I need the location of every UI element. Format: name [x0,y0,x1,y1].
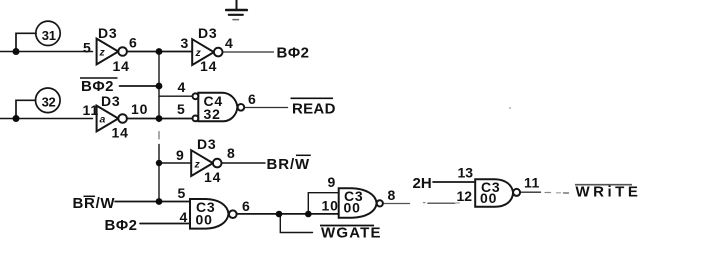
svg-text:13: 13 [458,165,474,181]
svg-text:11: 11 [524,175,540,191]
svg-text:9: 9 [176,147,185,163]
svg-text:8: 8 [227,145,236,161]
svg-text:3: 3 [181,35,190,51]
svg-text:D3: D3 [98,25,118,41]
svg-text:14: 14 [113,58,130,74]
svg-text:31: 31 [42,28,56,43]
svg-text:BΦ2: BΦ2 [277,45,310,62]
svg-text:4: 4 [180,209,189,225]
svg-text:2H: 2H [413,175,432,192]
svg-text:5: 5 [83,40,92,56]
svg-text:6: 6 [248,91,257,107]
svg-text:5: 5 [177,101,186,117]
svg-text:10: 10 [131,101,148,117]
svg-text:BR/W: BR/W [73,195,116,212]
svg-text:a: a [100,114,106,126]
svg-text:12: 12 [457,188,473,204]
svg-text:14: 14 [112,125,129,141]
svg-text:BR/W: BR/W [267,156,311,173]
svg-text:5: 5 [178,185,187,201]
svg-text:9: 9 [328,174,337,190]
svg-text:D3: D3 [197,136,217,152]
svg-text:14: 14 [204,169,221,185]
svg-text:READ: READ [292,100,336,117]
svg-text:WGATE: WGATE [321,225,382,242]
svg-text:00: 00 [196,211,213,227]
svg-text:z: z [99,47,106,59]
svg-text:00: 00 [344,200,361,216]
svg-text:D3: D3 [198,25,218,41]
svg-text:6: 6 [242,198,251,214]
svg-text:32: 32 [204,106,221,122]
svg-text:BΦ2: BΦ2 [105,217,138,234]
svg-text:D3: D3 [101,93,121,109]
svg-text:4: 4 [225,35,234,51]
svg-text:WRiTE: WRiTE [576,184,642,201]
svg-text:14: 14 [200,58,217,74]
svg-text:6: 6 [129,35,138,51]
svg-text:z: z [194,159,201,171]
svg-text:4: 4 [178,79,187,95]
svg-text:00: 00 [480,190,497,206]
svg-text:8: 8 [388,187,397,203]
svg-text:32: 32 [42,95,56,110]
svg-text:11: 11 [83,102,99,118]
svg-text:10: 10 [322,197,339,213]
